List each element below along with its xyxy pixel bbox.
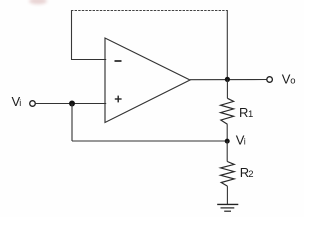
svg-text:2: 2 (248, 169, 253, 180)
svg-text:1: 1 (248, 109, 253, 120)
ground (217, 204, 238, 211)
label R2 (240, 165, 254, 180)
wire noninverting input (35, 103, 106, 105)
wire R1 to node (226, 124, 228, 141)
op-amp U1 (105, 38, 190, 123)
wire feedback left vertical (71, 10, 73, 60)
svg-text:R: R (239, 105, 248, 120)
node Vi divider junction (225, 139, 230, 144)
label Vo output (282, 72, 296, 87)
op-amp plus label (115, 96, 122, 103)
label R1 (239, 105, 253, 120)
node Vi input terminal (30, 101, 36, 107)
wire inverting input (71, 59, 106, 61)
op-amp minus label (115, 60, 122, 62)
wire feedback top (71, 10, 228, 12)
label Vi input (12, 94, 22, 109)
resistor R1 (221, 98, 234, 124)
svg-text:i: i (244, 136, 246, 146)
wire feedback right vertical (226, 11, 228, 78)
node output junction (225, 77, 230, 82)
node input junction (69, 101, 75, 107)
wire node to R2 (226, 141, 228, 162)
wire output (190, 79, 267, 81)
wire input down (71, 104, 73, 142)
svg-text:o: o (290, 76, 295, 87)
wire R2 to ground (226, 186, 228, 204)
node Vo output terminal (267, 77, 273, 83)
svg-text:i: i (19, 98, 21, 108)
wire bottom to divider (72, 140, 227, 142)
label Vi divider (236, 132, 246, 147)
wire output to R1 (226, 79, 228, 98)
resistor R2 (221, 162, 235, 187)
